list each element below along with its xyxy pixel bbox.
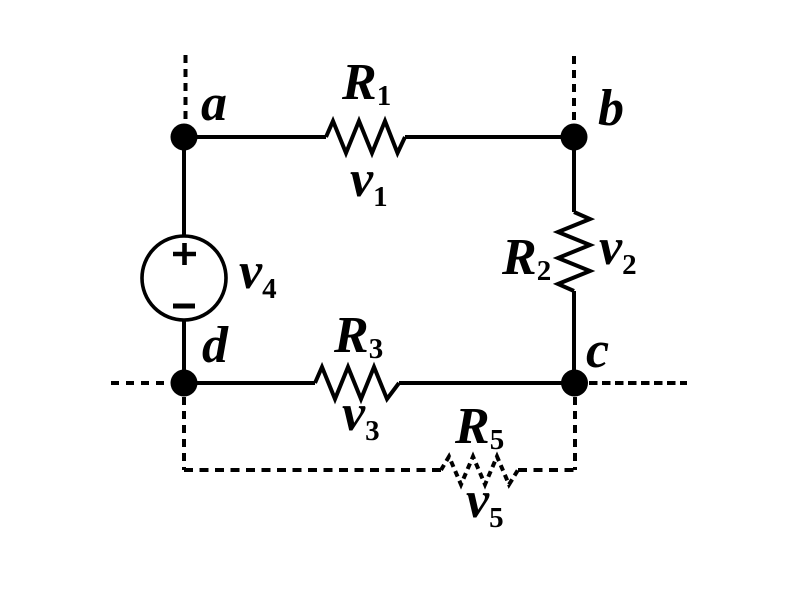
dashed wire left of node d <box>111 381 170 385</box>
dashed wire below node d <box>182 397 186 470</box>
svg-text:v1: v1 <box>350 151 388 213</box>
dashed wire above node a <box>184 55 188 124</box>
wire node d to R3 <box>184 381 315 385</box>
resistor R3 <box>315 367 399 399</box>
wire source to node d <box>182 320 186 383</box>
svg-text:c: c <box>586 322 609 379</box>
minus sign <box>173 304 195 309</box>
svg-text:v4: v4 <box>239 243 277 305</box>
svg-text:v5: v5 <box>466 472 504 534</box>
svg-text:d: d <box>202 317 229 374</box>
resistor R2 <box>558 212 590 291</box>
svg-text:b: b <box>598 80 624 137</box>
dashed bottom wire d side <box>184 468 441 472</box>
wire node a down to source <box>182 137 186 236</box>
svg-text:R3: R3 <box>333 307 383 365</box>
plus sign <box>173 243 196 265</box>
node b <box>561 124 588 151</box>
svg-text:R5: R5 <box>454 398 504 456</box>
svg-text:R2: R2 <box>501 229 551 287</box>
node d <box>171 370 198 397</box>
wire R1 to node b <box>405 135 574 139</box>
svg-text:R1: R1 <box>341 54 391 112</box>
dashed wire above node b <box>572 56 576 122</box>
svg-text:v2: v2 <box>599 219 637 281</box>
dashed wire below node c <box>573 397 577 470</box>
dashed wire right of node c <box>589 381 687 385</box>
resistor R1 <box>326 121 405 153</box>
wire R3 to node c <box>399 381 574 385</box>
svg-text:v3: v3 <box>342 385 380 447</box>
wire node a to R1 <box>184 135 326 139</box>
wire node b to R2 <box>572 137 576 212</box>
node c <box>561 370 588 397</box>
node a <box>171 124 198 151</box>
resistor R5 (dashed) <box>441 457 518 485</box>
wire R2 to node c <box>572 291 576 383</box>
voltage source V4 circle <box>142 236 226 320</box>
svg-text:a: a <box>201 75 227 132</box>
dashed bottom wire c side <box>518 468 575 472</box>
